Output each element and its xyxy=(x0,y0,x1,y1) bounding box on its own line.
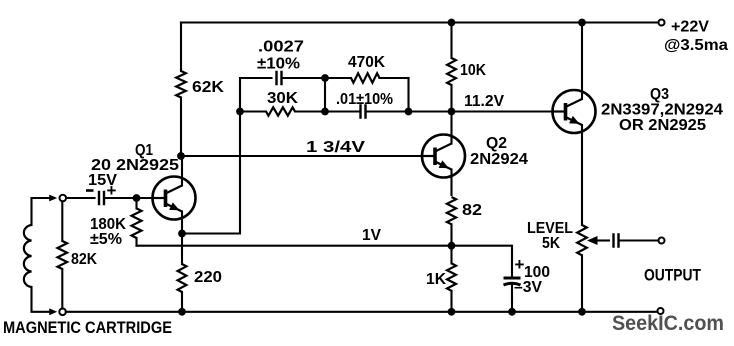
wire Q2 collector xyxy=(450,112,452,144)
svg-text:62K: 62K xyxy=(192,79,224,96)
svg-text:5K: 5K xyxy=(542,235,560,252)
capacitor 100uF xyxy=(504,278,521,285)
svg-text:1 3/4V: 1 3/4V xyxy=(306,139,365,156)
capacitor .01 xyxy=(359,104,361,119)
node feedback bottom left xyxy=(236,108,244,116)
svg-text:2N2925: 2N2925 xyxy=(116,157,179,174)
node cap 100 bottom xyxy=(508,308,516,316)
capacitor .0027 xyxy=(275,71,277,86)
terminal output top xyxy=(659,238,665,244)
resistor 82K xyxy=(58,202,68,309)
wire 11.2V to Q3 base xyxy=(452,110,554,112)
terminal input top xyxy=(60,195,67,202)
arrow input bottom xyxy=(49,308,57,315)
resistor 180K xyxy=(132,198,142,246)
resistor 470K xyxy=(325,73,409,82)
svg-text:1V: 1V xyxy=(362,227,381,244)
node 11.2V junction xyxy=(448,108,456,116)
node feedback middle vertical xyxy=(324,78,326,112)
arrow pot wiper xyxy=(587,236,598,245)
node Q1 base junction xyxy=(133,194,141,202)
arrow input top xyxy=(49,195,57,202)
svg-text:+: + xyxy=(515,255,525,274)
svg-text:@3.5ma: @3.5ma xyxy=(664,37,728,54)
wire 1V line xyxy=(137,245,452,247)
svg-text:20: 20 xyxy=(91,157,111,174)
svg-text:MAGNETIC CARTRIDGE: MAGNETIC CARTRIDGE xyxy=(3,318,172,337)
node 220 bottom xyxy=(178,308,186,316)
wire cap .01 to node xyxy=(367,110,409,112)
capacitor output coupling xyxy=(612,233,614,248)
svg-text:OUTPUT: OUTPUT xyxy=(644,266,701,285)
svg-text:2N3397,2N2924: 2N3397,2N2924 xyxy=(601,102,723,119)
resistor 82 xyxy=(447,197,456,246)
node feedback bottom right xyxy=(405,108,413,116)
svg-text:Q2: Q2 xyxy=(486,135,507,152)
terminal +22V xyxy=(659,20,665,26)
svg-text:Q3: Q3 xyxy=(650,86,669,103)
wire feedback to 11.2V node xyxy=(409,110,452,112)
wire Q1 emitter xyxy=(181,212,183,234)
wire top +22V supply rail xyxy=(181,21,659,23)
node feedback bottom middle xyxy=(321,108,329,116)
wire ground rail xyxy=(66,311,658,313)
capacitor 20uF 15V xyxy=(98,191,100,206)
svg-text:470K: 470K xyxy=(348,54,385,71)
node pot bottom xyxy=(578,308,586,316)
wire 1V to cap 100 xyxy=(452,246,513,277)
svg-text:±5%: ±5% xyxy=(90,231,122,248)
svg-text:82: 82 xyxy=(462,202,482,219)
svg-text:10K: 10K xyxy=(460,62,486,79)
svg-text:82K: 82K xyxy=(71,251,97,268)
svg-text:SeekIC.com: SeekIC.com xyxy=(612,312,724,335)
wire cap to output terminal xyxy=(620,239,659,241)
transistor Q1 xyxy=(153,177,196,220)
svg-text:1K: 1K xyxy=(426,271,446,288)
wire Q2 emitter xyxy=(450,170,452,196)
wire feedback left vertical top xyxy=(240,78,272,112)
svg-text:–3V: –3V xyxy=(514,279,542,296)
svg-text:.0027: .0027 xyxy=(258,39,304,56)
terminal input bottom xyxy=(59,309,66,316)
resistor 220 xyxy=(178,234,187,312)
wire input to cap xyxy=(66,197,95,199)
transistor Q3 xyxy=(553,90,596,133)
wire Q1 collector xyxy=(181,156,183,186)
node Q1 collector junction xyxy=(177,152,185,160)
wire feedback right vertical xyxy=(407,78,409,112)
transistor Q2 xyxy=(422,135,465,178)
wire wiper to cap xyxy=(596,239,609,241)
node feedback top middle xyxy=(321,74,329,82)
svg-text:220: 220 xyxy=(194,269,222,286)
wire cap 100 to ground rail xyxy=(511,286,513,312)
resistor 30K xyxy=(240,107,325,115)
resistor 10K xyxy=(447,23,456,112)
svg-text:11.2V: 11.2V xyxy=(464,93,504,110)
svg-text:±10%: ±10% xyxy=(257,56,300,73)
svg-text:OR 2N2925: OR 2N2925 xyxy=(619,117,706,134)
svg-text:+22V: +22V xyxy=(671,19,709,36)
svg-text:.01±10%: .01±10% xyxy=(336,91,393,108)
wire Q1 collector to Q2 base xyxy=(181,155,422,157)
svg-text:15V: 15V xyxy=(88,172,117,189)
node 1K bottom xyxy=(448,308,456,316)
magnetic cartridge coil xyxy=(24,198,50,312)
wire node to cap .01 xyxy=(325,110,360,112)
wire cap .0027 to node xyxy=(283,77,325,79)
terminal output bottom xyxy=(658,308,664,314)
wire Q3 collector xyxy=(581,23,583,100)
resistor R 62K xyxy=(176,23,186,157)
resistor 1K xyxy=(447,246,456,312)
wire Q1 emitter to feedback xyxy=(182,112,240,234)
wire cap to Q1 base xyxy=(106,197,153,199)
svg-text:2N2924: 2N2924 xyxy=(470,151,528,168)
label - polarity xyxy=(86,189,94,192)
node Q1 emitter junction xyxy=(178,230,186,238)
node Q3 collector top xyxy=(578,19,586,27)
svg-text:30K: 30K xyxy=(267,90,298,107)
node 1V junction xyxy=(448,242,456,250)
wire Q3 emitter xyxy=(581,125,583,225)
potentiometer LEVEL 5K xyxy=(577,225,587,312)
node 10K top xyxy=(448,19,456,27)
